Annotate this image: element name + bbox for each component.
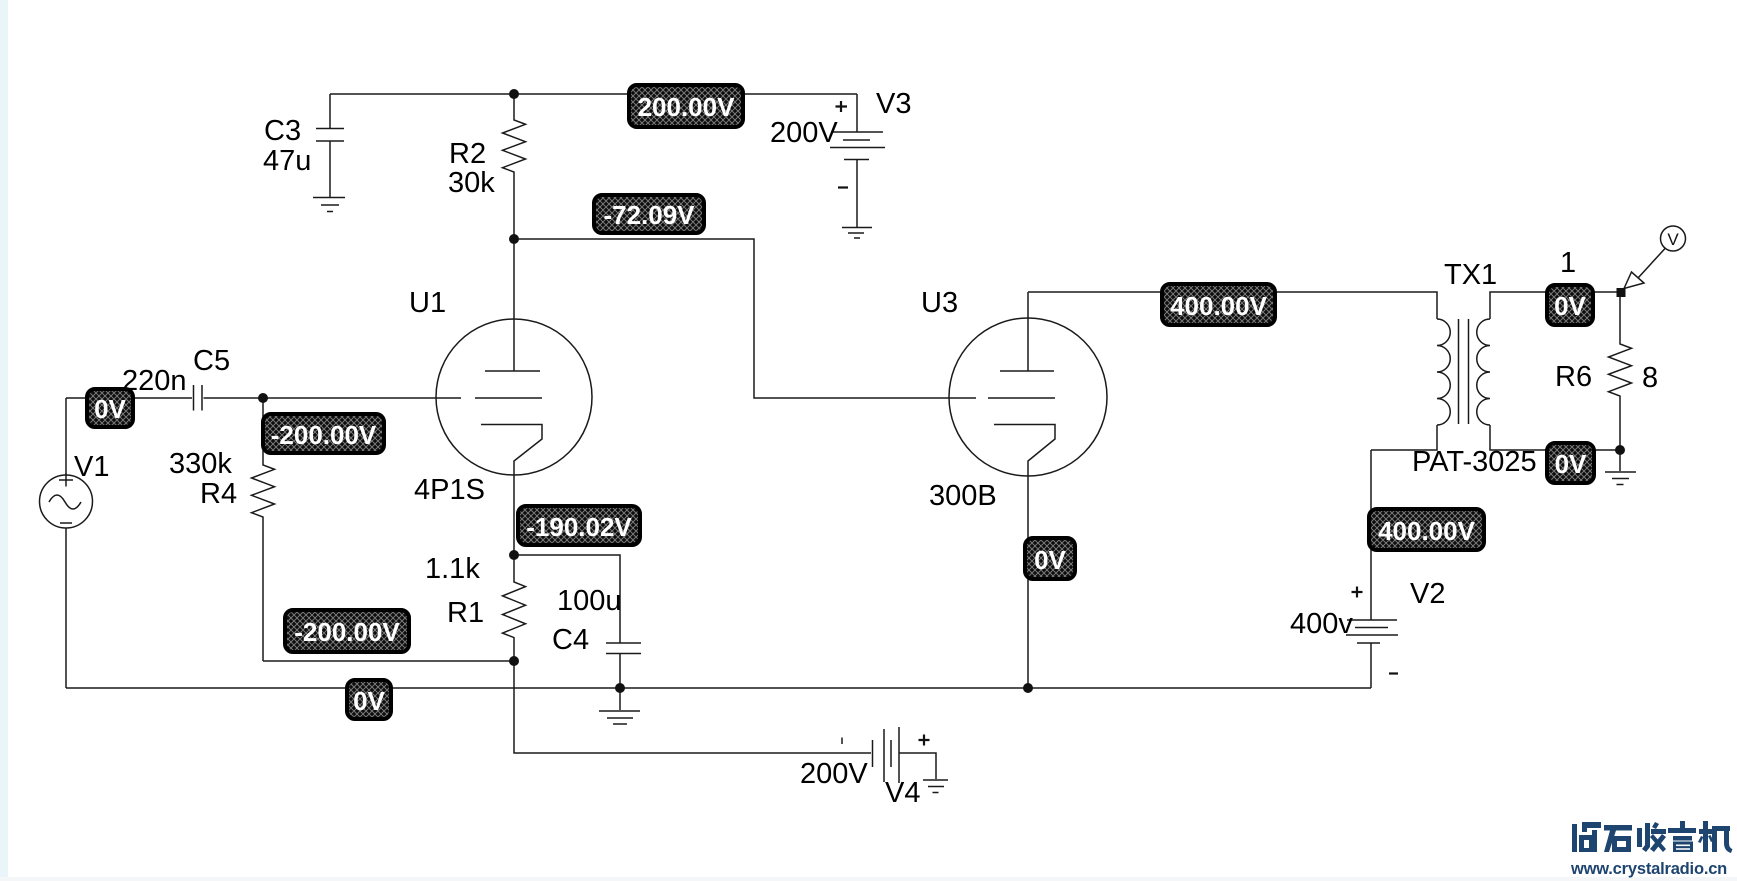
- probe meter circle: [1661, 226, 1686, 251]
- wire node -72.09V to U3 grid: [514, 239, 1055, 398]
- svg-text:C3: C3: [264, 115, 301, 147]
- svg-text:0V: 0V: [94, 394, 126, 424]
- char shou: [1637, 828, 1642, 847]
- battery V3: [830, 94, 885, 227]
- svg-text:-72.09V: -72.09V: [603, 200, 695, 230]
- svg-text:R2: R2: [449, 138, 486, 170]
- tube U1 plate: [485, 370, 540, 372]
- svg-text:C4: C4: [552, 624, 589, 656]
- minus of V3: [838, 186, 848, 188]
- svg-text:0V: 0V: [353, 686, 385, 716]
- wire top rail C3 to V3: [330, 93, 857, 95]
- wire U1 anode lead: [513, 239, 515, 371]
- svg-text:V1: V1: [74, 451, 109, 483]
- probe label -190.02V: [518, 506, 640, 545]
- junction C4 ground rail: [615, 683, 625, 693]
- junction R1 bottom: [509, 656, 519, 666]
- svg-text:47u: 47u: [263, 145, 311, 177]
- svg-text:200V: 200V: [800, 758, 868, 790]
- plus of V4: [919, 735, 930, 746]
- resistor R1: [503, 555, 526, 661]
- junction R6 ground: [1615, 445, 1625, 455]
- probe label 400.00V V2: [1369, 509, 1484, 550]
- wire TX1 secondary top to node 1: [1490, 292, 1620, 319]
- wire input V1 to C5: [66, 397, 192, 399]
- svg-text:8: 8: [1642, 362, 1658, 394]
- capacitor C4: [606, 643, 641, 688]
- source V1 minus: [60, 522, 72, 524]
- wire ground rail: [66, 687, 1371, 689]
- probe line: [1638, 249, 1665, 279]
- svg-text:U3: U3: [921, 287, 958, 319]
- probe label -72.09V: [594, 195, 704, 233]
- wire V2 to TX1 primary bottom: [1371, 425, 1437, 450]
- source V1 plus: [59, 474, 73, 487]
- wire U3 anode to TX1 primary: [1028, 292, 1437, 319]
- ground below C4: [599, 688, 640, 724]
- svg-text:V3: V3: [876, 88, 911, 120]
- wire V4 to ground: [899, 753, 936, 779]
- svg-text:-190.02V: -190.02V: [526, 512, 632, 542]
- battery V4 minus tick: [841, 738, 843, 745]
- char ji: [1703, 821, 1708, 852]
- resistor R6: [1609, 292, 1632, 450]
- probe label 0V secondary bottom: [1547, 443, 1594, 483]
- probe arrowhead: [1624, 272, 1644, 289]
- svg-text:V2: V2: [1410, 578, 1445, 610]
- svg-text:200.00V: 200.00V: [638, 92, 736, 122]
- svg-text:1: 1: [1560, 247, 1576, 279]
- svg-text:-200.00V: -200.00V: [271, 420, 377, 450]
- watermark crystalradio logo: [1572, 821, 1733, 853]
- wire TX1 secondary bottom to ground node: [1490, 425, 1620, 450]
- svg-text:220n: 220n: [122, 365, 187, 397]
- tube U1 cathode: [481, 425, 542, 556]
- source V1 sine: [49, 495, 81, 509]
- svg-text:330k: 330k: [169, 448, 232, 480]
- source V1 circle: [40, 475, 93, 528]
- svg-text:300B: 300B: [929, 480, 997, 512]
- tube U3 envelope: [949, 318, 1107, 476]
- svg-text:U1: U1: [409, 287, 446, 319]
- transformer TX1 core: [1459, 319, 1469, 424]
- ground below R6: [1605, 450, 1636, 485]
- svg-text:R1: R1: [447, 597, 484, 629]
- resistor R4: [252, 398, 275, 661]
- svg-text:100u: 100u: [557, 585, 622, 617]
- svg-text:PAT-3025: PAT-3025: [1412, 446, 1537, 478]
- battery V4: [873, 727, 900, 783]
- junction node 1: [1617, 288, 1626, 297]
- resistor R2: [503, 94, 526, 239]
- source V1 lead top: [65, 398, 67, 475]
- char yin: [1680, 821, 1685, 829]
- ground below C3: [313, 198, 345, 212]
- left edge tint strip: [0, 0, 8, 881]
- capacitor C5: [194, 385, 203, 411]
- svg-text:200V: 200V: [770, 117, 838, 149]
- plus of V3: [836, 101, 848, 112]
- svg-text:1.1k: 1.1k: [425, 553, 480, 585]
- tube U3 cathode: [994, 425, 1055, 689]
- svg-text:R6: R6: [1555, 361, 1592, 393]
- plus of V2: [1352, 587, 1363, 598]
- probe label 400.00V anode: [1162, 284, 1275, 325]
- source V1 lead bottom: [65, 528, 67, 688]
- svg-text:4P1S: 4P1S: [414, 474, 485, 506]
- svg-text:C5: C5: [193, 345, 230, 377]
- junction R2 bottom: [509, 234, 519, 244]
- battery V2: [1346, 450, 1398, 688]
- svg-text:400v: 400v: [1290, 608, 1353, 640]
- svg-text:0V: 0V: [1554, 291, 1586, 321]
- svg-text:400.00V: 400.00V: [1170, 291, 1268, 321]
- ground at V4: [923, 780, 948, 793]
- svg-text:V: V: [1667, 230, 1679, 249]
- ground below V3: [842, 228, 872, 239]
- junction U3 cathode rail: [1023, 683, 1033, 693]
- svg-text:www.crystalradio.cn: www.crystalradio.cn: [1570, 860, 1727, 878]
- probe label 0V node1: [1547, 285, 1593, 325]
- svg-text:TX1: TX1: [1444, 259, 1497, 291]
- junction C5 R4: [258, 393, 268, 403]
- probe label -200.00V upper: [263, 414, 384, 453]
- svg-text:30k: 30k: [448, 167, 495, 199]
- svg-text:R4: R4: [200, 478, 237, 510]
- tube U1 envelope: [436, 319, 592, 475]
- svg-text:400.00V: 400.00V: [1378, 516, 1476, 546]
- bottom edge tint strip: [0, 877, 1737, 881]
- transformer TX1 secondary winding: [1477, 319, 1490, 425]
- junction R1 top: [509, 550, 519, 560]
- svg-text:0V: 0V: [1034, 545, 1066, 575]
- probe label -200.00V lower: [285, 610, 409, 652]
- probe label 0V rail: [347, 680, 391, 719]
- tube U3 plate and anode lead: [1000, 292, 1054, 371]
- probe label 200.00V: [629, 85, 743, 127]
- wire R1 bottom to V4: [514, 661, 871, 753]
- junction R2 top: [509, 89, 519, 99]
- svg-text:0V: 0V: [1555, 449, 1587, 479]
- wire R4 bottom to R1 bottom: [263, 660, 514, 662]
- transformer TX1 primary winding: [1437, 319, 1450, 425]
- probe label 0V input: [87, 389, 133, 427]
- minus of V2: [1389, 672, 1398, 674]
- capacitor C3: [316, 94, 344, 197]
- wire cathode node to C4: [514, 555, 620, 643]
- svg-text:V4: V4: [885, 777, 920, 809]
- char shi: [1604, 825, 1632, 831]
- probe label 0V U3 cathode: [1025, 538, 1075, 579]
- wire C5 to U1 grid: [204, 397, 543, 399]
- char kuang: [1572, 824, 1577, 852]
- svg-text:-200.00V: -200.00V: [294, 617, 400, 647]
